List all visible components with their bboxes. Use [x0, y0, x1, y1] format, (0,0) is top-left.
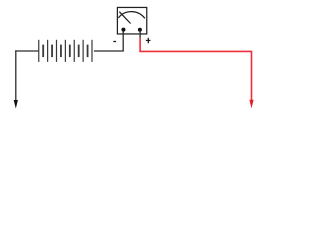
red probe arrowhead [249, 100, 253, 109]
meter M1 case [117, 7, 146, 34]
meter scale arc [118, 12, 144, 19]
wire: black stub below plus terminal [139, 30, 141, 39]
battery B1 [38, 40, 92, 62]
black probe arrowhead [14, 100, 18, 109]
meter needle [119, 12, 130, 24]
wire: red test lead [140, 38, 251, 100]
label: plus sign [146, 38, 151, 44]
meter minus terminal dot [121, 28, 125, 32]
meter plus terminal dot [138, 28, 142, 32]
wire: battery negative lead (horizontal) [15, 50, 39, 52]
label: minus sign [113, 41, 116, 43]
wire: left vertical test lead [15, 50, 17, 100]
wire: battery positive lead to meter minus terminal [94, 30, 123, 51]
